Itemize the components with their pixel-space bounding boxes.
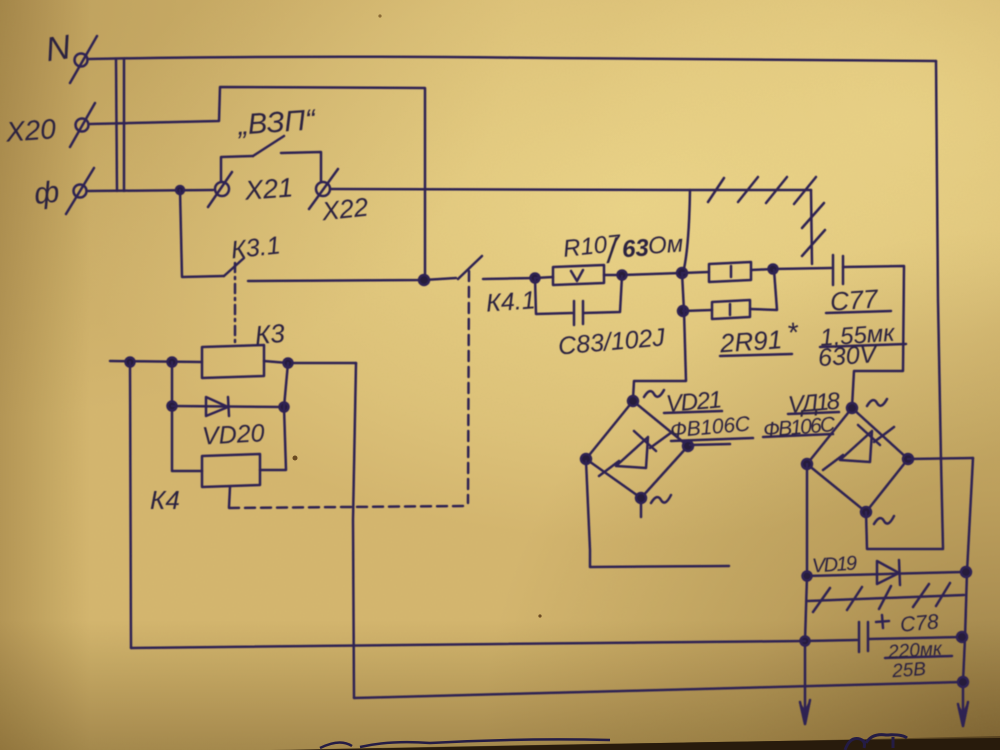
wire K3 right [264, 361, 356, 363]
wire VD21 right stub [690, 444, 730, 445]
svg-text:К3: К3 [254, 318, 287, 351]
bottom rail 1 [131, 641, 805, 648]
node lower 2R91 [678, 306, 688, 316]
wire VD18 bottom loop [866, 512, 943, 549]
bridge VD18 corner nodes [847, 403, 857, 413]
wire right rail K3-K4 [260, 363, 288, 470]
wire VD21 left output [586, 461, 729, 567]
wire 2R91 bottom leads [683, 270, 777, 311]
bridge VD21 inner diode [599, 461, 619, 476]
node K3 right [284, 359, 293, 368]
rail x356 down [353, 363, 356, 698]
wire VD18 right output [908, 458, 973, 459]
diode VD19 symbol [877, 561, 899, 584]
svg-text:X22: X22 [319, 192, 370, 227]
paper speck 1 [293, 456, 298, 461]
relay coil K3 [202, 345, 264, 378]
diode VD20 wire [172, 406, 284, 407]
svg-text:63: 63 [621, 234, 650, 263]
photo dark edge bottom [290, 738, 1000, 750]
svg-text:ф: ф [32, 176, 60, 211]
label 1,55mk underline [820, 344, 906, 347]
svg-text:X21: X21 [243, 172, 294, 205]
switch X22 bracket [281, 152, 321, 181]
wire node down to VD21 [633, 273, 686, 399]
resistor 2R91 top mark [730, 266, 733, 277]
resistor R107 V mark [571, 270, 583, 281]
chassis line lower [808, 595, 964, 601]
svg-text:630V: 630V [817, 340, 880, 372]
svg-text:VD20: VD20 [201, 419, 265, 450]
label C77 underline [826, 311, 891, 313]
svg-text:С78: С78 [899, 610, 940, 636]
chassis vertical drop [811, 190, 812, 264]
VD21 tilde top [644, 390, 664, 397]
rail x806 down from VD18 left [805, 464, 807, 722]
bottom rail 2 [354, 682, 963, 698]
capacitor C78 plates [858, 622, 861, 652]
wire phase X22 to chassis corner [330, 189, 811, 190]
node 2R91 out [769, 265, 778, 274]
rail x131 down [130, 362, 131, 648]
capacitor C77 plates [832, 255, 835, 285]
node bottom right [958, 677, 968, 687]
node VD19 right [961, 567, 971, 577]
wire K3 left [110, 361, 202, 362]
label FV106S-21 underline [671, 438, 753, 441]
capacitor C78 plus [876, 615, 889, 628]
node phase junction [176, 186, 184, 194]
resistor 2R91 bottom mark [729, 304, 732, 315]
double insulation lines [116, 60, 117, 191]
wire K4.1 to R107 [483, 278, 535, 279]
paper speck 2 [378, 14, 381, 17]
capacitor C83 loop left [535, 278, 572, 314]
svg-text:К3.1: К3.1 [230, 231, 282, 264]
dash-dot link K3.1 to K3 [234, 263, 237, 346]
wire phase down to K3.1 [180, 190, 224, 277]
cut-off scribbles at photo edge [320, 739, 610, 748]
wire phase to X21 [88, 190, 213, 191]
node main mid [677, 268, 687, 278]
svg-text:25В: 25В [890, 659, 927, 682]
terminal X22 [316, 182, 330, 196]
wire R107 left lead [535, 277, 553, 278]
diode VD20 symbol [206, 397, 228, 416]
svg-text:VD21: VD21 [665, 386, 723, 418]
diode VD19 wire [807, 572, 963, 576]
rail x973 down [963, 458, 973, 724]
label 2R91 underline [720, 354, 792, 356]
terminal N [75, 54, 88, 67]
switch K3.1 blade [224, 258, 244, 276]
terminal X21 [215, 182, 229, 196]
label VD21 underline [664, 411, 722, 413]
wire N horizontal [89, 57, 936, 61]
relay coil K4 [202, 454, 260, 487]
bridge VD21 corner nodes [628, 396, 638, 406]
dashed link K4.1 vertical [468, 271, 469, 503]
resistor R107 body [553, 265, 604, 285]
label 220mk underline [885, 656, 952, 658]
svg-text:С77: С77 [829, 283, 880, 316]
svg-text:К4: К4 [150, 485, 180, 515]
wire R107 right lead [604, 273, 681, 275]
node mid wire [419, 275, 429, 285]
arrow right rail [958, 702, 968, 726]
node C78 right [957, 632, 967, 642]
svg-text:X20: X20 [4, 113, 57, 147]
node R107 left [531, 274, 540, 283]
switch K4.1 blade [458, 256, 482, 279]
VD21 tilde bottom [651, 495, 671, 503]
terminal F (phase) [74, 185, 87, 198]
svg-text:„ВЗП“: „ВЗП“ [236, 104, 317, 141]
wire K3.1 to K4.1 [248, 278, 456, 281]
capacitor C78 wire right [869, 637, 961, 639]
label VD18 underline [788, 412, 839, 414]
bridge rectifier VD21 diamond [586, 401, 688, 498]
svg-text:2R91: 2R91 [718, 324, 783, 358]
VD18 tilde bottom [874, 516, 894, 524]
node VD20 left [168, 402, 177, 411]
bridge rectifier VD18 diamond [807, 408, 908, 512]
capacitor C83 loop right [584, 276, 622, 313]
node R107 right [618, 271, 627, 280]
wire right vertical N rail [936, 61, 943, 548]
svg-text:VD19: VD19 [811, 552, 857, 577]
capacitor C83 plates [573, 301, 576, 325]
svg-text:К4.1: К4.1 [485, 286, 536, 317]
wire K4 bottom stub [229, 487, 230, 507]
rail x172 down to K4 [172, 362, 202, 471]
dashed link K4 to K4.1 horizontal [229, 506, 463, 508]
switch X21 fixed stub [221, 156, 253, 181]
label FV106S-18 underline [763, 434, 833, 437]
resistor 2R91 top body [709, 262, 751, 282]
node VD19 left [803, 572, 812, 581]
chassis hatching lower [813, 588, 830, 612]
node left rail top [126, 358, 135, 367]
node second rail top [168, 358, 177, 367]
paper speck 3 [538, 614, 541, 617]
capacitor C78 wire left [805, 640, 857, 641]
node VD20 right [280, 403, 289, 412]
switch X21 blade [253, 136, 284, 156]
VD18 tilde top [867, 399, 887, 406]
terminal X20 [76, 119, 89, 132]
wire X20 to VZP box [90, 87, 425, 280]
resistor 2R91 bottom body [712, 300, 750, 319]
wire C77 right to VD18 top [843, 266, 904, 407]
VD21 bottom stub [640, 503, 643, 517]
svg-text:Ом: Ом [647, 230, 684, 259]
chassis hatching top [708, 178, 724, 202]
arrow left rail [800, 700, 810, 724]
wire 2R91 top leads [682, 268, 831, 273]
bridge VD18 inner diode [823, 455, 843, 470]
node C78 left [801, 637, 810, 646]
wire phase drop to node [683, 190, 690, 273]
